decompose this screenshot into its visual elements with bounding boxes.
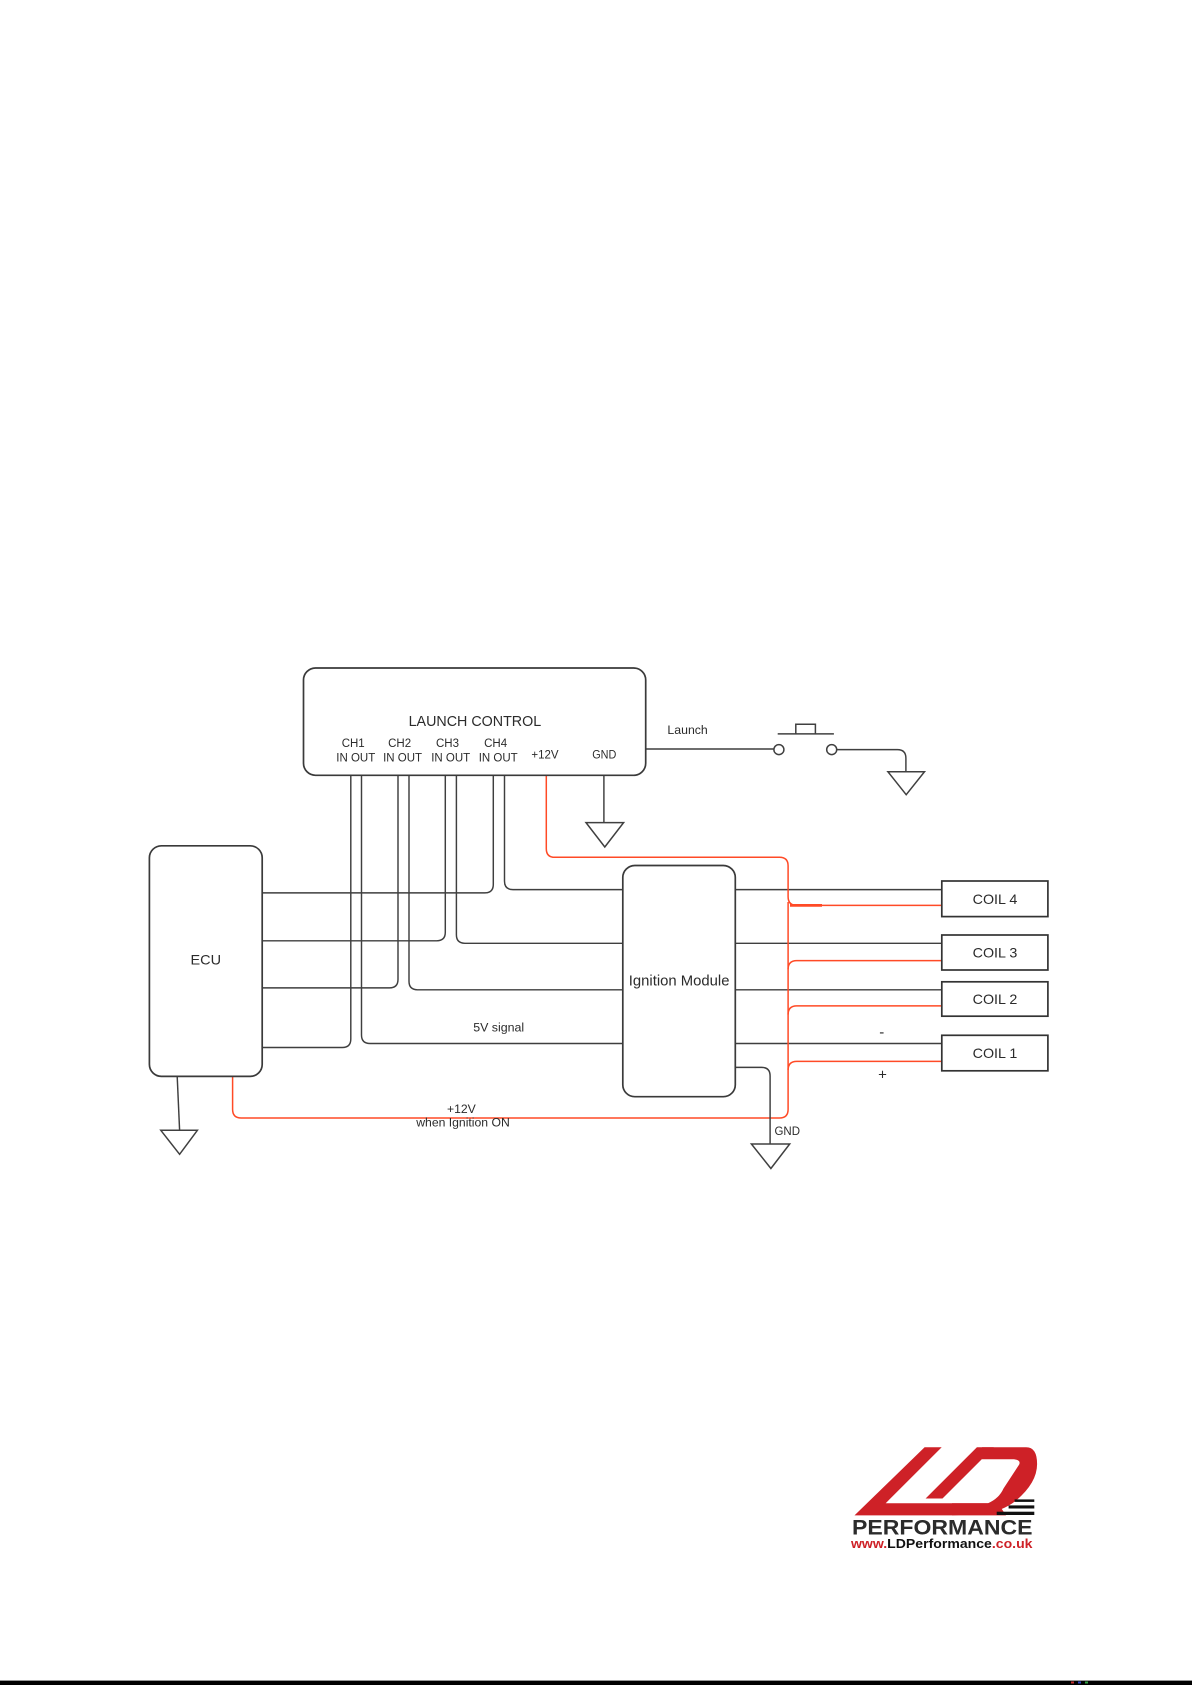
svg-text:GND: GND [592, 750, 616, 762]
svg-text:www.LDPerformance.co.uk: www.LDPerformance.co.uk [850, 1537, 1033, 1551]
wire CH3 IN from ECU to launch control [262, 775, 445, 941]
coil box COIL 4 [942, 881, 1048, 917]
svg-text:IN OUT: IN OUT [336, 752, 375, 764]
page bottom bar [0, 1681, 1192, 1685]
svg-text:CH2: CH2 [388, 738, 411, 750]
wire CH2 IN from ECU to launch control [262, 775, 398, 988]
wire orange branch to COIL 2 [788, 1006, 942, 1015]
ignition module box [623, 866, 736, 1097]
ECU box [149, 846, 262, 1077]
svg-text:Launch: Launch [667, 723, 708, 737]
wire ECU ground stub [177, 1076, 179, 1130]
wire CH4 OUT from launch control to ignition module and COIL 4 [505, 775, 942, 889]
wire ignition module GND [735, 1067, 770, 1144]
svg-text:IN OUT: IN OUT [383, 752, 422, 764]
wire +12V orange from ECU bottom along page bottom to rail [233, 902, 789, 1118]
coil box COIL 3 [942, 935, 1048, 970]
wire CH2 OUT from launch control to ignition module and COIL 2 [409, 775, 942, 990]
launch control box U1 [304, 668, 646, 775]
wire +12V orange overlap blob at COIL 4 branch [790, 904, 822, 907]
logo LD letter D red [926, 1447, 1038, 1515]
pushbutton switch S1 [774, 724, 837, 754]
svg-text:CH1: CH1 [342, 738, 365, 750]
svg-text:COIL 2: COIL 2 [973, 991, 1018, 1007]
svg-text:Ignition Module: Ignition Module [629, 973, 730, 989]
svg-text:+12V: +12V [447, 1102, 477, 1116]
wire orange branch to COIL 3 [788, 961, 942, 970]
wire +12V orange from launch control to COIL 4 via rail [546, 775, 942, 905]
ground ignition module [751, 1144, 789, 1169]
svg-text:when Ignition ON: when Ignition ON [415, 1115, 510, 1129]
ground pushbutton [888, 772, 925, 795]
svg-text:5V signal: 5V signal [473, 1021, 524, 1035]
ground ECU [161, 1130, 198, 1154]
page number marks [1071, 1682, 1088, 1684]
svg-text:COIL 4: COIL 4 [973, 891, 1018, 907]
svg-text:+12V: +12V [531, 750, 559, 762]
wire CH4 IN from ECU to launch control [262, 775, 493, 893]
coil box COIL 1 [942, 1035, 1048, 1071]
wire CH1 OUT from launch control to ignition module and COIL 1 [362, 775, 942, 1043]
wire launch signal to pushbutton [646, 748, 774, 750]
ground launch control [586, 823, 624, 847]
svg-text:IN OUT: IN OUT [431, 752, 470, 764]
wire orange branch to COIL 1 [788, 1061, 942, 1070]
svg-text:+: + [878, 1067, 887, 1084]
wire launch control GND pin [603, 775, 605, 822]
svg-text:LAUNCH CONTROL: LAUNCH CONTROL [409, 714, 542, 730]
wire CH3 OUT from launch control to ignition module and COIL 3 [456, 775, 941, 943]
wire pushbutton to ground [837, 750, 906, 772]
svg-text:GND: GND [775, 1126, 801, 1138]
svg-text:COIL 1: COIL 1 [973, 1045, 1018, 1061]
svg-text:CH3: CH3 [436, 738, 459, 750]
svg-text:ECU: ECU [191, 952, 222, 968]
svg-text:-: - [879, 1024, 884, 1041]
coil box COIL 2 [942, 982, 1048, 1016]
logo LD letter L red [855, 1447, 1007, 1515]
logo speed stripes black [997, 1499, 1035, 1515]
svg-text:IN OUT: IN OUT [479, 752, 518, 764]
wire CH1 IN from ECU to launch control [262, 775, 351, 1047]
svg-text:CH4: CH4 [484, 738, 508, 750]
svg-text:COIL 3: COIL 3 [973, 945, 1018, 961]
